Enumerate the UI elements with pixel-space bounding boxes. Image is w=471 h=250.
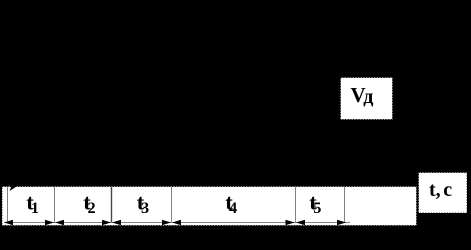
divider line t1/t2 bbox=[54, 187, 56, 223]
arrow shaft (horizontal measure line) bbox=[4, 222, 350, 224]
svg-text:1: 1 bbox=[31, 198, 39, 217]
svg-text:2: 2 bbox=[88, 198, 96, 217]
label t, c bbox=[429, 179, 452, 201]
divider line t2/t3 bbox=[111, 187, 113, 223]
label t5 bbox=[309, 189, 321, 217]
box Vд (white label box, dotted border) bbox=[341, 78, 393, 120]
label t4 bbox=[225, 189, 237, 217]
box t,c (white label box, dotted border) bbox=[419, 173, 468, 214]
svg-text:3: 3 bbox=[141, 198, 149, 217]
arrow t5 (double-headed) bbox=[296, 220, 346, 226]
svg-text:4: 4 bbox=[229, 198, 237, 217]
divider line axis origin (x=7) bbox=[7, 187, 9, 223]
label t3 bbox=[137, 189, 149, 217]
arrow t2 (double-headed) bbox=[55, 220, 111, 226]
svg-text:t,: t, bbox=[429, 179, 441, 201]
svg-text:д: д bbox=[363, 86, 373, 108]
svg-text:с: с bbox=[443, 179, 452, 201]
label t1 bbox=[26, 189, 39, 217]
axis strip (white band with dotted border) bbox=[2, 187, 417, 226]
arrow t1 (double-headed) bbox=[4, 220, 54, 226]
divider line t5 end bbox=[344, 187, 346, 223]
arrow t4 (double-headed) bbox=[172, 220, 295, 226]
label Vд bbox=[351, 83, 374, 108]
label t2 bbox=[83, 189, 95, 217]
curve arrowhead at origin (diagonal tip near top of axis) bbox=[10, 187, 17, 192]
arrow t3 (double-headed) bbox=[112, 220, 171, 226]
divider line t4/t5 bbox=[295, 187, 297, 223]
svg-text:5: 5 bbox=[313, 198, 321, 217]
divider line t3/t4 bbox=[171, 187, 173, 223]
